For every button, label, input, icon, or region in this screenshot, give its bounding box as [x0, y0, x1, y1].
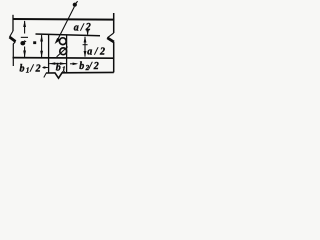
arrow before b2/2 — [70, 63, 77, 65]
wire H4 left end tail — [44, 73, 47, 78]
dimension line lower-left (to H3) — [24, 47, 26, 58]
wire left plate edge V1 lower — [13, 42, 15, 67]
dimension line upper-left (H1 to tick) — [24, 21, 26, 34]
wire bottom plate edge H4 with break zigzag — [46, 72, 114, 78]
svg-text:a: a — [74, 23, 79, 34]
arrowhead up at H2 on V6 — [40, 35, 43, 42]
arrow from b1/2 to V3 — [43, 67, 48, 69]
small dot blob left of V6 — [33, 41, 36, 44]
wire left plate edge V1 upper — [12, 15, 14, 31]
wire right plate edge V2 upper — [113, 13, 115, 33]
dimension a/2 top: down arrow — [87, 29, 89, 35]
wire cover strap left edge V3 — [48, 34, 50, 73]
leader dot — [73, 3, 77, 7]
tick on a/2 right dim — [83, 44, 88, 45]
small glyph blob e left column — [20, 41, 25, 45]
svg-text:2: 2 — [99, 46, 105, 57]
wire left break zigzag — [10, 31, 14, 37]
dimension b1: line with outward arrows — [49, 63, 66, 65]
svg-text:1: 1 — [26, 66, 30, 74]
rivet circle C1 — [59, 38, 66, 45]
wire right plate edge V2 lower — [113, 42, 115, 72]
wire plate inner edge H2 — [36, 34, 101, 36]
svg-text:2: 2 — [35, 63, 41, 74]
tick under left dim — [21, 37, 28, 38]
arrowhead down at H3 on left dim — [23, 51, 26, 58]
wire lap joint line H3 — [13, 57, 114, 60]
leader line — [57, 7, 75, 42]
arrowhead up at H1 on left dim — [23, 20, 26, 27]
dimension line V6 (H2 to H3) — [41, 35, 43, 57]
svg-text:1: 1 — [62, 66, 66, 74]
blob tail — [24, 40, 27, 42]
svg-text:a: a — [87, 47, 92, 58]
svg-text:b: b — [20, 64, 25, 75]
dimension a/2 right: vertical line with arrows — [84, 37, 86, 57]
svg-text:2: 2 — [85, 22, 91, 33]
wire cover strap right edge V4 — [66, 35, 68, 73]
svg-text:b: b — [79, 61, 84, 72]
svg-text:2: 2 — [93, 61, 99, 72]
rivet circle C2 — [60, 48, 67, 55]
wire top plate edge H1 — [13, 18, 115, 21]
wire right break zigzag — [107, 33, 113, 38]
rivet C2 diagonal tick — [57, 47, 68, 57]
svg-text:b: b — [56, 63, 61, 74]
leader dot tail — [76, 1, 78, 3]
arrowhead down at H3 on V6 — [40, 51, 43, 58]
leader arrowhead — [55, 38, 61, 44]
